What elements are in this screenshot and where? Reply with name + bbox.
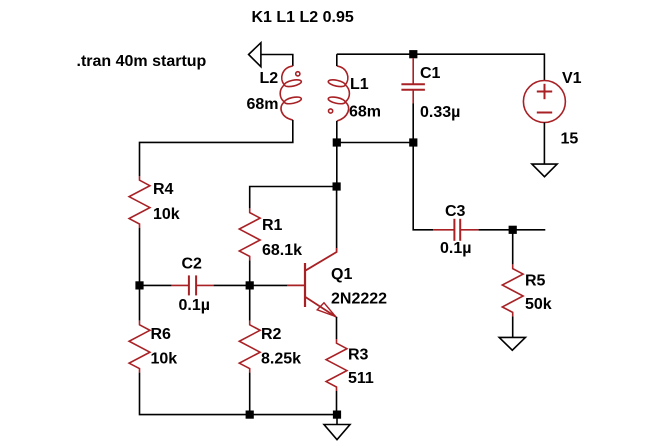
capacitor C3 — [433, 219, 478, 241]
svg-text:K1 L1 L2 0.95: K1 L1 L2 0.95 — [252, 9, 354, 26]
value 2N2222 (Q1) — [331, 291, 387, 308]
node A junction (R4/R6/C2) — [135, 281, 143, 289]
label R4 — [153, 181, 174, 198]
svg-text:R4: R4 — [153, 181, 174, 198]
wire collector node to R1 top — [250, 187, 337, 209]
svg-text:15: 15 — [561, 131, 579, 148]
junction C1 bottom — [409, 138, 417, 146]
wire R1 bottom to node B — [249, 260, 251, 285]
junction R3 bottom — [333, 411, 341, 419]
wire R4 bottom to node A — [139, 228, 141, 285]
svg-text:C3: C3 — [445, 203, 466, 220]
label R2 — [261, 326, 282, 343]
node OUT junction — [509, 226, 517, 234]
wire node B to R2 top — [249, 285, 251, 320]
svg-text:2N2222: 2N2222 — [331, 291, 387, 308]
ground under V1 — [532, 164, 557, 177]
wire C2 right to node B — [214, 284, 250, 286]
wire node A to R6 top — [139, 285, 141, 320]
inductor L1 — [328, 66, 350, 121]
wire stub right of node OUT — [513, 229, 546, 231]
label R5 — [525, 273, 546, 290]
label C3 — [445, 203, 466, 220]
value 15 (V1) — [561, 131, 579, 148]
resistor R2 — [239, 321, 260, 373]
directive text .tran 40m startup — [77, 53, 207, 70]
svg-text:R3: R3 — [348, 347, 369, 364]
value 0.1µ (C2) — [179, 297, 210, 314]
svg-text:R2: R2 — [261, 326, 282, 343]
value 50k (R5) — [525, 296, 552, 313]
wire node B to Q1 base — [250, 284, 287, 286]
svg-text:R1: R1 — [262, 217, 283, 234]
svg-text:68.1k: 68.1k — [262, 242, 302, 259]
svg-text:C1: C1 — [420, 65, 441, 82]
wire L1 top to rail — [336, 54, 338, 66]
svg-text:0.1µ: 0.1µ — [179, 297, 210, 314]
ground under R3 — [324, 425, 350, 440]
wire R6 bottom to ground rail — [140, 373, 338, 415]
ground under R5 — [499, 337, 525, 350]
label C2 — [182, 256, 203, 273]
label V1 — [562, 70, 582, 87]
value 0.1µ (C3) — [440, 240, 471, 257]
svg-text:.tran 40m startup: .tran 40m startup — [77, 53, 207, 70]
directive text K1 L1 L2 0.95 — [252, 9, 354, 26]
resistor R6 — [129, 321, 150, 373]
wire arrow to L2 top — [261, 55, 293, 67]
wire junction to ground — [336, 415, 338, 425]
label L2 — [260, 70, 279, 87]
wire C1 bottom junction down to C3 row — [413, 143, 433, 230]
wire R2 bottom to ground rail — [249, 373, 251, 415]
collector node junction — [333, 182, 341, 190]
wire node A to C2 left — [140, 284, 172, 286]
svg-text:10k: 10k — [151, 351, 178, 368]
value 10k (R6) — [151, 351, 178, 368]
junction C1 top — [409, 50, 417, 58]
label R1 — [262, 217, 283, 234]
resistor R3 — [326, 339, 347, 391]
value 511 (R3) — [348, 370, 374, 387]
svg-text:R6: R6 — [151, 326, 172, 343]
resistor R4 — [129, 176, 150, 228]
value 68m (L2) — [247, 96, 279, 113]
svg-text:68m: 68m — [349, 104, 381, 121]
wire V1 bottom to ground — [543, 123, 545, 165]
wire collector node down to Q1 — [336, 187, 338, 249]
value 0.33µ (C1) — [420, 104, 460, 121]
svg-text:0.33µ: 0.33µ — [420, 104, 460, 121]
svg-text:0.1µ: 0.1µ — [440, 240, 471, 257]
svg-text:V1: V1 — [562, 70, 582, 87]
svg-text:Q1: Q1 — [331, 266, 352, 283]
label L1 — [350, 76, 369, 93]
svg-text:511: 511 — [348, 370, 374, 387]
svg-text:L2: L2 — [260, 70, 279, 87]
value 10k (R4) — [153, 206, 180, 223]
svg-text:L1: L1 — [350, 76, 369, 93]
junction R2/ground rail — [246, 411, 254, 419]
wire junction to collector node — [336, 143, 338, 187]
svg-text:68m: 68m — [247, 96, 279, 113]
capacitor C1 — [401, 58, 425, 104]
svg-text:50k: 50k — [525, 296, 552, 313]
wire top rail L1 to V1 — [337, 54, 545, 80]
junction L1 bottom — [333, 138, 341, 146]
wire R3 bottom to rail — [336, 391, 338, 415]
wire L2 bottom to R4 top — [140, 120, 293, 176]
value 8.25k (R2) — [261, 351, 301, 368]
wire lower rail L1 to C1 — [337, 142, 413, 144]
inductor L2 — [280, 66, 302, 120]
svg-text:C2: C2 — [182, 256, 203, 273]
wire arrow (net marker) — [249, 43, 261, 67]
node B junction (R1/R2/base) — [246, 281, 254, 289]
transistor Q1 — [287, 248, 337, 317]
capacitor C2 — [171, 275, 213, 295]
wire emitter to R3 top — [336, 317, 338, 339]
label R3 — [348, 347, 369, 364]
resistor R5 — [502, 264, 523, 316]
resistor R1 — [239, 208, 260, 260]
wire R5 bottom to ground — [512, 316, 514, 337]
svg-text:10k: 10k — [153, 206, 180, 223]
wire node OUT to R5 top — [512, 230, 514, 265]
value 68m (L1) — [349, 104, 381, 121]
label Q1 — [331, 266, 352, 283]
label C1 — [420, 65, 441, 82]
label R6 — [151, 326, 172, 343]
svg-text:R5: R5 — [525, 273, 546, 290]
wire C1 bottom to lower rail — [412, 104, 414, 143]
voltage source V1 — [523, 81, 565, 123]
wire L1 bottom to junction — [336, 121, 338, 143]
wire C3 right to node OUT — [479, 229, 513, 231]
svg-text:8.25k: 8.25k — [261, 351, 301, 368]
value 68.1k (R1) — [262, 242, 302, 259]
